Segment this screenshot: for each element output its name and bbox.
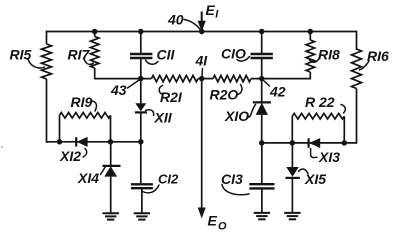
- svg-text:R 22: R 22: [305, 94, 335, 110]
- svg-text:E: E: [206, 2, 216, 18]
- svg-text:R2O: R2O: [210, 87, 239, 103]
- svg-text:RI5: RI5: [10, 47, 32, 63]
- svg-text:XI2: XI2: [59, 148, 81, 164]
- svg-text:I: I: [215, 9, 219, 21]
- svg-text:XI3: XI3: [318, 149, 340, 165]
- svg-text:CII: CII: [157, 47, 176, 63]
- svg-text:42: 42: [269, 84, 286, 100]
- svg-text:XI5: XI5: [304, 171, 326, 187]
- svg-text:XI4: XI4: [77, 170, 99, 186]
- svg-text:XII: XII: [154, 110, 173, 126]
- svg-text:E: E: [208, 213, 218, 229]
- svg-text:CI2: CI2: [158, 172, 179, 187]
- svg-text:RI7: RI7: [68, 47, 91, 63]
- svg-text:4I: 4I: [195, 53, 209, 69]
- svg-text:RI8: RI8: [318, 47, 340, 63]
- svg-text:40: 40: [167, 12, 184, 28]
- svg-text:43: 43: [110, 82, 127, 98]
- svg-text:RI6: RI6: [367, 48, 389, 64]
- svg-text:CI3: CI3: [221, 171, 243, 187]
- svg-text:RI9: RI9: [71, 94, 93, 110]
- svg-text:XIO: XIO: [224, 108, 249, 124]
- svg-text:O: O: [218, 221, 227, 233]
- svg-text:R2I: R2I: [160, 89, 183, 105]
- svg-text:CIO: CIO: [221, 46, 246, 62]
